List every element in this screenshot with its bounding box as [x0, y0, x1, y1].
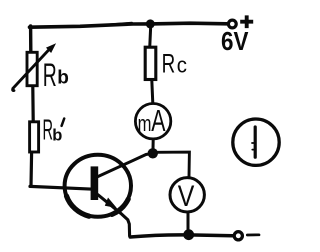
resistor Rb: [27, 52, 37, 85]
svg-text:m: m: [138, 111, 152, 136]
wire left rail top: [29, 26, 33, 51]
label Rb: [43, 57, 69, 93]
svg-text:b: b: [57, 68, 69, 89]
node top junction: [146, 19, 155, 28]
transistor Q1 collector lead: [98, 153, 153, 177]
wire middle rail (top junction to Rc): [150, 24, 151, 46]
transistor Q1 emitter lead with arrowhead: [98, 195, 130, 236]
wire Rb to Rb': [31, 87, 35, 121]
label Rb': [43, 115, 65, 147]
wire Rb' down to base corner: [29, 153, 33, 187]
wire mA to collector node: [152, 140, 155, 150]
meter V (voltmeter): [170, 178, 204, 213]
terminal - (battery negative): [234, 232, 259, 240]
svg-text:V: V: [178, 180, 195, 213]
meter I (standalone ammeter symbol): [233, 119, 279, 165]
label 6V: [221, 26, 249, 56]
svg-text:6V: 6V: [221, 26, 249, 56]
wire bottom rail: [130, 235, 233, 237]
arrow through Rb (variable): [13, 44, 55, 90]
transistor Q1 base bar: [91, 166, 99, 200]
terminal + (battery positive): [228, 15, 253, 28]
wire top rail: [30, 23, 228, 28]
label Rc: [162, 49, 187, 79]
wire collector node to voltmeter: [156, 152, 189, 176]
svg-text:R: R: [43, 57, 57, 93]
node bottom junction: [183, 229, 194, 240]
resistor Rc: [145, 47, 156, 79]
svg-text:c: c: [177, 53, 187, 78]
meter mA (milliammeter): [135, 103, 170, 139]
svg-text:R: R: [162, 49, 176, 79]
svg-text:b: b: [52, 127, 62, 145]
wire base horizontal: [30, 186, 94, 189]
wire Rc to mA meter: [152, 80, 153, 104]
transistor Q1 circle: [65, 155, 131, 217]
resistor Rb': [30, 122, 39, 152]
svg-text:A: A: [151, 103, 165, 138]
node collector junction: [148, 148, 158, 158]
wire voltmeter to bottom rail: [187, 214, 190, 233]
